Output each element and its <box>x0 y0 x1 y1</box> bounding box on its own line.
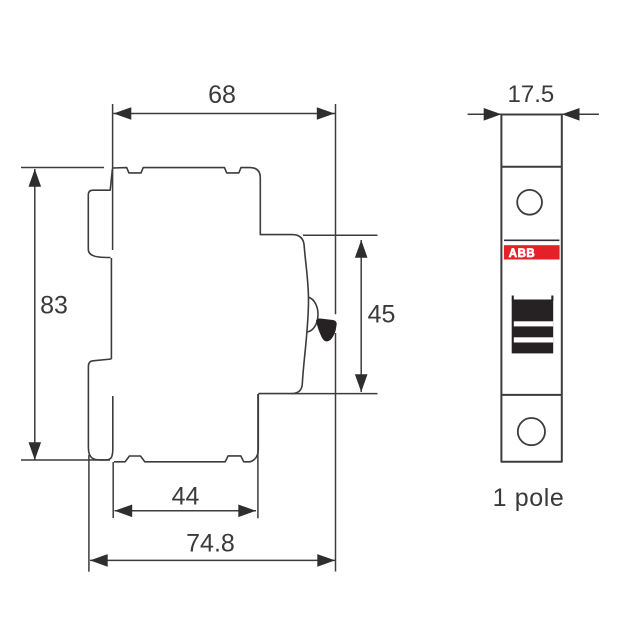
svg-text:1 pole: 1 pole <box>493 484 565 512</box>
svg-text:45: 45 <box>368 301 396 329</box>
svg-text:68: 68 <box>208 81 236 109</box>
svg-text:83: 83 <box>40 292 68 320</box>
svg-text:ABB: ABB <box>509 248 535 260</box>
svg-text:44: 44 <box>172 483 200 511</box>
svg-text:17.5: 17.5 <box>508 81 555 108</box>
svg-text:74.8: 74.8 <box>186 529 235 557</box>
